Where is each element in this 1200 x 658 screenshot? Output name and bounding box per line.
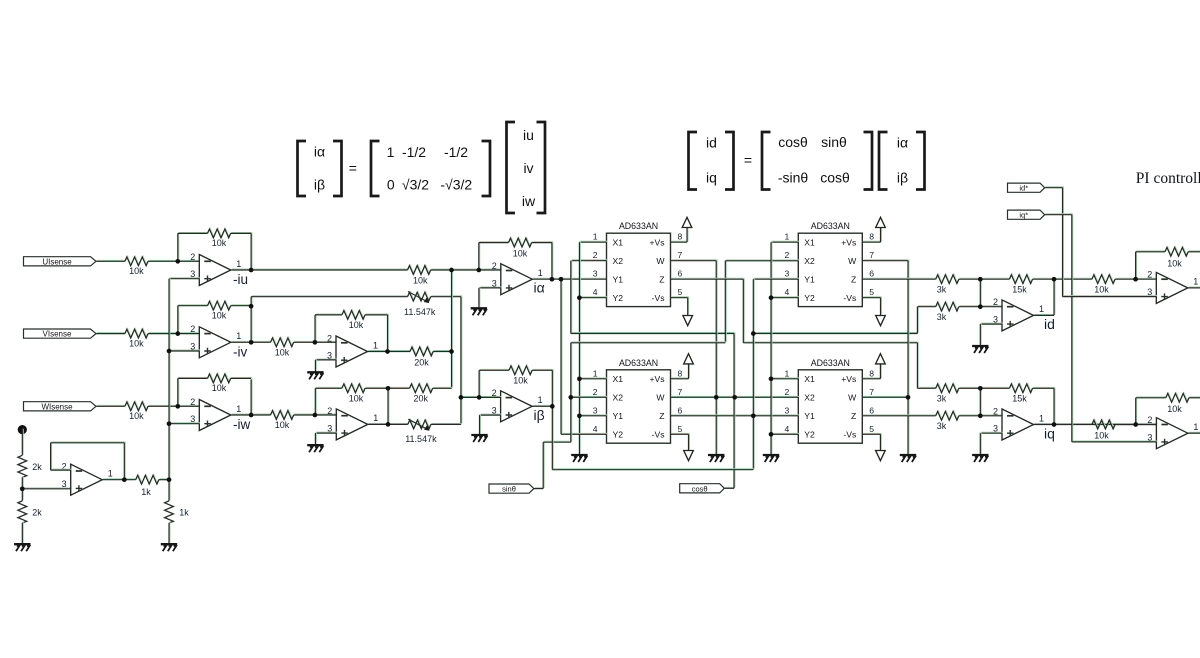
junction i-beta bus on Z-line: [751, 413, 756, 418]
wire U1 X2: [571, 259, 608, 262]
svg-text:5: 5: [678, 424, 683, 434]
wire i-alpha pin3: [479, 286, 502, 289]
junction PI upper feedback tap: [1133, 277, 1138, 282]
junction U2 Y1: [577, 413, 582, 418]
svg-text:iu: iu: [523, 127, 534, 143]
wire iq upper node: [959, 386, 1011, 389]
junction -iw pin3 on vref bus: [167, 421, 172, 426]
input flag iq*: [1008, 210, 1045, 219]
svg-text:-√3/2: -√3/2: [440, 177, 472, 193]
svg-text:-Vs: -Vs: [652, 293, 665, 303]
junction U3 Y2: [769, 295, 774, 300]
wire inverter1 pin3 to ground: [314, 359, 317, 372]
svg-text:X2: X2: [613, 393, 624, 403]
wire PI lower pin3 to iq*: [1072, 440, 1158, 443]
svg-text:6: 6: [678, 405, 683, 415]
wire inverter2 feedback top mid: [365, 386, 411, 389]
svg-text:iw: iw: [522, 193, 536, 209]
svg-text:2: 2: [593, 387, 598, 397]
junction i-alpha output feedback: [550, 277, 555, 282]
wire -iw output to 10k: [231, 413, 272, 416]
wire 15k to iq output corner: [1032, 386, 1055, 389]
ground inverter1: [307, 372, 323, 379]
junction divider midpoint: [20, 486, 25, 491]
svg-text:Y1: Y1: [613, 275, 624, 285]
svg-text:AD633AN: AD633AN: [619, 221, 658, 231]
svg-text:Z: Z: [851, 275, 856, 285]
svg-text:AD633AN: AD633AN: [619, 358, 658, 368]
wire -iu feedback top left: [178, 232, 209, 235]
svg-text:iv: iv: [523, 160, 533, 176]
svg-text:1: 1: [373, 413, 378, 423]
wire -iw feedback top left: [178, 377, 209, 380]
svg-text:Y2: Y2: [804, 293, 815, 303]
wire iq pin3: [980, 431, 1003, 434]
multiplier U2 AD633AN bottom-left: [607, 370, 671, 443]
junction -iu inverting input: [175, 259, 180, 264]
op-amp inverter1: [336, 336, 368, 367]
resistor 10k PI upper input: [1092, 274, 1116, 284]
op-amp -iw pin numbers: [190, 397, 241, 424]
junction 20k on i-alpha vertical: [449, 349, 454, 354]
wire U4 Z to iq 3k: [862, 414, 936, 417]
svg-text:X2: X2: [804, 393, 815, 403]
svg-text:3k: 3k: [937, 394, 947, 404]
svg-text:2: 2: [1147, 415, 1152, 425]
resistor 10k WIsense input: [125, 401, 149, 411]
wire sin-theta vertical: [542, 441, 545, 488]
resistor 20k inverter2 out: [410, 383, 434, 393]
wire 20k to i-alpha vertical: [433, 386, 453, 389]
svg-text:10k: 10k: [349, 320, 364, 330]
junction i-alpha bus: [559, 277, 564, 282]
bracket Park vec2 left: [879, 132, 888, 190]
wire buffer output to 1k: [102, 478, 136, 481]
wire U2 +Vs: [671, 377, 690, 380]
junction U4 Y2: [769, 432, 774, 437]
svg-text:X1: X1: [613, 374, 624, 384]
resistor 11.547k upper variable: [408, 292, 432, 302]
junction i-beta feedback tap: [477, 395, 482, 400]
wire inverter1 feedback top left: [315, 313, 343, 316]
op-amp vref buffer: [71, 464, 103, 495]
wire sin-theta net horizontal to U3 X2: [571, 341, 726, 344]
svg-text:-sinθ: -sinθ: [778, 170, 809, 186]
resistor 10k inverter2 feedback: [342, 383, 366, 393]
junction i-beta net tap: [751, 331, 756, 336]
svg-text:10k: 10k: [349, 394, 364, 404]
wire inverter1 output to 20k: [368, 350, 411, 353]
svg-text:sinθ: sinθ: [821, 134, 847, 150]
wire 2k to ground: [21, 522, 24, 544]
ground right multiplier reference: [763, 455, 779, 462]
svg-text:11.547k: 11.547k: [404, 307, 436, 317]
wire U3 W: [862, 259, 909, 262]
svg-text:W: W: [848, 256, 857, 266]
svg-text:X2: X2: [613, 256, 624, 266]
svg-text:6: 6: [869, 405, 874, 415]
wire U3 +Vs: [862, 240, 881, 243]
wire vertical to i-beta summing node: [460, 296, 463, 424]
op-amp i-alpha: [501, 264, 533, 295]
wire PI lower feedback vertical: [1135, 397, 1138, 425]
wire id pin3: [980, 322, 1003, 325]
wire inverter1 feedback left vertical: [314, 314, 317, 342]
wire -iu feedback left vertical: [177, 233, 180, 262]
wire U3 +Vs stem: [880, 226, 883, 242]
wire U2 Y1: [579, 414, 607, 417]
input flag UIsense: [24, 257, 97, 266]
resistor 10k i-alpha feedback: [509, 237, 533, 247]
svg-text:1: 1: [538, 268, 543, 278]
ground divider: [14, 544, 30, 551]
ground W-line right: [900, 455, 916, 462]
svg-text:1: 1: [1193, 422, 1198, 432]
wire iq output to PI stage: [1034, 423, 1158, 426]
bracket Clarke matrix left: [371, 141, 380, 196]
wire U2 X1: [579, 377, 607, 380]
resistor 10k inverter1 feedback: [342, 310, 366, 320]
wire U1 W vertical: [715, 260, 718, 455]
svg-text:10k: 10k: [275, 347, 290, 357]
svg-text:W: W: [656, 393, 665, 403]
wire 10k to PI upper op-amp: [1115, 277, 1157, 280]
multiplier U2 AD633AN bottom-left pin names and numbers: [593, 368, 683, 439]
bracket Park vec1 left: [689, 132, 698, 190]
wire iq feedback down: [1053, 387, 1056, 424]
wire 15k to PI 10k: [1032, 277, 1092, 280]
wire 1k to ground: [168, 522, 171, 544]
svg-text:3k: 3k: [937, 285, 947, 295]
svg-text:Y2: Y2: [613, 430, 624, 440]
junction i-alpha summing node: [449, 268, 454, 273]
svg-text:7: 7: [678, 387, 683, 397]
wire i-alpha output to multiplier1 Y1: [532, 277, 607, 280]
wire U4 +Vs stem: [879, 362, 882, 378]
resistor 10k -iu feedback: [208, 228, 232, 238]
wire sin-theta horizontal: [543, 440, 572, 443]
wire 3k to id inverting input: [959, 305, 1003, 308]
resistor 3k id upper: [936, 274, 960, 284]
svg-text:PI controller: PI controller: [1136, 170, 1200, 187]
svg-text:X1: X1: [613, 238, 624, 248]
wire id* vertical: [1062, 187, 1065, 297]
wire inverter1 feedback top right: [365, 313, 389, 316]
junction -iw inverting input: [175, 404, 180, 409]
svg-text:0: 0: [387, 177, 395, 193]
svg-text:10k: 10k: [1167, 404, 1182, 414]
power -Vs U2: [684, 451, 694, 461]
wire 11.547k to corner: [431, 295, 462, 298]
svg-text:1: 1: [538, 395, 543, 405]
multiplier U3 AD633AN top-right: [798, 233, 862, 306]
wire U1 Y2: [579, 296, 607, 299]
svg-text:iβ: iβ: [534, 407, 545, 423]
wire 11.547k lower to i-beta node: [431, 423, 462, 426]
svg-text:10k: 10k: [212, 383, 227, 393]
svg-text:iα: iα: [314, 144, 325, 160]
wire 10k to i-alpha inverting input: [431, 268, 502, 271]
junction iq input node upper: [978, 386, 983, 391]
wire i-beta bus right vertical: [752, 278, 755, 469]
svg-text:20k: 20k: [414, 394, 429, 404]
ground i-alpha: [471, 308, 487, 315]
svg-text:-Vs: -Vs: [843, 430, 856, 440]
svg-text:6: 6: [678, 269, 683, 279]
wire 10k to PI lower op-amp: [1115, 423, 1157, 426]
wire U3 Y1: [753, 277, 799, 280]
multiplier U3 AD633AN top-right pin names and numbers: [785, 232, 875, 303]
wire iq pin3 to ground: [979, 432, 982, 454]
wire -iv non-inverting input to bus: [169, 349, 200, 352]
junction -iv output: [249, 340, 254, 345]
svg-text:iq: iq: [706, 170, 717, 186]
svg-text:+Vs: +Vs: [649, 238, 664, 248]
wire id pin3 to ground: [979, 323, 982, 345]
input flag id*: [1008, 183, 1045, 192]
svg-text:1: 1: [373, 340, 378, 350]
svg-text:1: 1: [785, 232, 790, 242]
svg-text:8: 8: [678, 232, 683, 242]
svg-text:2: 2: [993, 406, 998, 416]
svg-text:cosθ: cosθ: [778, 134, 808, 150]
resistor 10k PI upper feedback: [1165, 247, 1189, 257]
svg-text:10k: 10k: [212, 238, 227, 248]
wire left multiplier reference vertical: [578, 241, 581, 454]
svg-text:3: 3: [62, 479, 67, 489]
wire buffer feedback right vertical: [123, 442, 126, 480]
svg-text:10k: 10k: [275, 420, 290, 430]
ground left multiplier reference: [571, 455, 587, 462]
wire input resistor to op-amp -iw: [148, 404, 200, 407]
svg-text:8: 8: [869, 232, 874, 242]
op-amp -iu pin numbers: [190, 252, 241, 279]
wire id upper node: [959, 277, 1011, 280]
wire U3 -Vs stem: [880, 297, 883, 315]
svg-text:AD633AN: AD633AN: [811, 358, 850, 368]
wire cos-theta net horizontal to U1 X2: [571, 332, 735, 335]
wire U1 W: [671, 259, 718, 262]
svg-text:5: 5: [869, 287, 874, 297]
op-amp i-beta: [501, 391, 532, 422]
wire 20k to i-alpha node vertical: [433, 350, 452, 353]
resistor 20k inverter1 out: [410, 346, 434, 356]
op-amp PI upper: [1156, 272, 1188, 303]
wire U2 -Vs stem: [688, 433, 691, 450]
resistor 15k iq feedback: [1009, 383, 1033, 393]
wire vref bus left vertical: [168, 278, 171, 501]
svg-text:VIsense: VIsense: [43, 330, 72, 339]
resistor 10k -iw feedback: [208, 373, 232, 383]
wire -iw feedback left vertical: [177, 378, 180, 407]
wire PI lower output to edge: [1188, 431, 1200, 434]
svg-text:3: 3: [593, 405, 598, 415]
svg-text:cosθ: cosθ: [820, 170, 850, 186]
bracket Park matrix right: [864, 132, 873, 190]
junction U1 Y2: [577, 295, 582, 300]
svg-text:1: 1: [387, 144, 395, 160]
wire buffer feedback top: [51, 441, 126, 444]
op-amp -iu: [199, 255, 231, 286]
svg-text:1: 1: [236, 404, 241, 414]
wire U3 X1: [771, 240, 799, 243]
wire U1 Z net to iq 3k: [917, 386, 936, 389]
wire i-beta pin3 to ground: [479, 414, 482, 434]
svg-text:sinθ: sinθ: [502, 485, 516, 494]
wire i-beta feedback top left: [479, 368, 510, 371]
svg-text:2: 2: [993, 297, 998, 307]
wire U2 Z to U4 Y1: [671, 414, 800, 417]
svg-text:10k: 10k: [129, 411, 144, 421]
svg-text:iα: iα: [897, 135, 908, 151]
svg-text:15k: 15k: [1012, 285, 1027, 295]
svg-text:10k: 10k: [212, 310, 227, 320]
svg-text:Z: Z: [659, 411, 664, 421]
multiplier U1 AD633AN top-left pin names and numbers: [593, 232, 683, 303]
wire -iu non-inverting input to bus: [169, 277, 200, 280]
resistor 3k id lower: [936, 302, 960, 312]
svg-text:iq: iq: [1044, 426, 1055, 442]
svg-text:id: id: [1044, 316, 1055, 332]
input flag sin-theta: [489, 484, 534, 493]
wire cos-theta net vertical upper: [733, 333, 736, 398]
svg-text:-iu: -iu: [233, 272, 248, 287]
wire U1 Z: [671, 277, 745, 280]
wire PI lower feedback top: [1136, 396, 1167, 399]
resistor 10k -iv feedback: [208, 301, 232, 311]
junction inverter2 feedback: [386, 386, 391, 391]
svg-text:=: =: [744, 152, 752, 168]
node supply midpoint terminal: [18, 425, 27, 434]
svg-text:1: 1: [1039, 304, 1044, 314]
bracket Clarke vec1 right: [333, 141, 342, 196]
svg-text:1: 1: [236, 331, 241, 341]
resistor 10k PI lower feedback: [1166, 393, 1190, 403]
resistor 10k -iu to i-alpha: [408, 265, 432, 275]
power -Vs U1: [683, 316, 693, 326]
input flag cos-theta: [680, 484, 725, 493]
multiplier U1 AD633AN top-left: [607, 233, 671, 306]
svg-text:1: 1: [108, 469, 113, 479]
svg-text:10k: 10k: [413, 275, 428, 285]
wire i-alpha feedback left vertical: [478, 242, 481, 270]
op-amp vref buffer pin numbers: [62, 462, 113, 489]
svg-text:-1/2: -1/2: [402, 144, 426, 160]
resistor 2k upper: [18, 455, 27, 477]
svg-text:6: 6: [869, 269, 874, 279]
wire -iv feedback top left: [178, 304, 209, 307]
svg-text:3: 3: [785, 405, 790, 415]
power +Vs U1: [682, 217, 692, 227]
wire input resistor to op-amp -iv: [148, 332, 200, 335]
op-amp PI upper pin numbers: [1147, 270, 1198, 297]
svg-text:10k: 10k: [1167, 259, 1182, 269]
svg-text:√3/2: √3/2: [402, 177, 429, 193]
op-amp -iw: [199, 400, 231, 431]
wire sin-theta net vertical to U3 X2: [724, 260, 727, 343]
wire buffer feedback left vertical: [50, 442, 53, 470]
wire U4 -Vs stem: [879, 433, 882, 450]
wire -iw feedback top right: [231, 377, 253, 380]
svg-text:2: 2: [327, 333, 332, 343]
bracket Clarke vec2 left: [507, 122, 516, 213]
op-amp iq pin numbers: [993, 406, 1044, 433]
bracket Park vec1 right: [725, 132, 734, 190]
svg-text:10k: 10k: [129, 338, 144, 348]
wire U1 -Vs stem: [687, 297, 690, 315]
wire inverter2 feedback left vertical: [314, 387, 317, 415]
junction iq inverting node: [978, 413, 983, 418]
wire i-beta bottom bus: [552, 468, 754, 471]
svg-text:1: 1: [236, 259, 241, 269]
junction i-beta output: [550, 404, 555, 409]
wire U3 Z to id 3k: [862, 277, 936, 280]
svg-text:Y1: Y1: [613, 411, 624, 421]
svg-text:4: 4: [593, 424, 598, 434]
wire iq node vertical: [979, 387, 982, 415]
resistor 10k i-beta feedback: [509, 365, 533, 375]
junction -iw output: [249, 413, 254, 418]
svg-text:7: 7: [678, 250, 683, 260]
svg-text:W: W: [848, 393, 857, 403]
wire inverter2 feedback right vertical: [387, 387, 390, 424]
svg-text:W: W: [656, 256, 665, 266]
bracket Park matrix left: [762, 132, 771, 190]
svg-text:5: 5: [869, 424, 874, 434]
wire i-alpha summing vertical: [451, 269, 454, 388]
wire id* flag: [1045, 186, 1064, 189]
wire UIsense to input resistor: [96, 259, 126, 262]
wire U1 Z net horizontal to iq: [743, 341, 918, 344]
junction -iv pin3 on vref bus: [167, 349, 172, 354]
wire U4 Y2: [771, 432, 799, 435]
wire U4 W: [862, 395, 909, 398]
resistor 11.547k lower variable: [408, 419, 432, 429]
junction sin-theta at U2 X2: [568, 395, 573, 400]
wire i-beta bus down: [551, 405, 554, 469]
svg-text:Z: Z: [659, 275, 664, 285]
wire inverter2 pin3: [315, 431, 337, 434]
junction id output node: [1052, 277, 1057, 282]
svg-text:1k: 1k: [141, 487, 151, 497]
wire to i-beta inverting input: [461, 396, 502, 399]
power +Vs U3: [876, 217, 886, 227]
svg-text:1: 1: [785, 368, 790, 378]
svg-text:2: 2: [327, 406, 332, 416]
wire PI upper feedback to edge: [1188, 250, 1200, 253]
wire id node vertical: [979, 278, 982, 306]
op-amp inverter1 pin numbers: [327, 333, 378, 360]
svg-text:2: 2: [190, 397, 195, 407]
wire U1 -Vs: [671, 296, 689, 299]
wire -iv to 11.547k: [251, 295, 408, 298]
svg-text:11.547k: 11.547k: [405, 434, 437, 444]
bracket Clarke vec2 right: [537, 122, 546, 213]
svg-text:3k: 3k: [937, 312, 947, 322]
resistor 1k vertical: [165, 501, 174, 523]
wire -iu output to 10k: [231, 268, 409, 271]
wire i-beta feedback right vertical: [551, 369, 554, 406]
wire 1k to vref bus: [159, 478, 170, 481]
resistor 10k PI lower input: [1092, 419, 1116, 429]
svg-text:10k: 10k: [513, 376, 528, 386]
svg-text:=: =: [349, 160, 357, 176]
wire right multiplier reference vertical: [770, 241, 773, 454]
junction inverter2 output: [386, 422, 391, 427]
wire -iw non-inverting input to bus: [169, 422, 200, 425]
svg-text:cosθ: cosθ: [692, 484, 708, 493]
wire i-beta pin3: [480, 413, 502, 416]
